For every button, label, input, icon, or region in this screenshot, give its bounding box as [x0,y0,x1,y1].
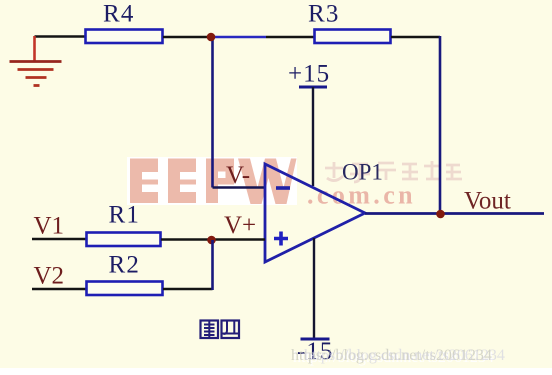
output wire [365,212,544,215]
svg-text:+15: +15 [288,61,330,88]
wire R1 to junction2 [161,238,208,241]
wire V2 to R2 [32,288,86,291]
svg-text:OP1: OP1 [342,160,383,185]
W [238,159,297,205]
svg-text:.com.cn: .com.cn [307,181,416,210]
svg-text:V2: V2 [34,263,65,290]
plus input symbol [274,232,288,246]
wire R2 to corner [163,288,213,291]
op-amp OP1 triangle [265,164,365,262]
minus input symbol [276,186,290,190]
watermark EEPW logo [127,157,297,205]
svg-text:V-: V- [226,162,250,189]
wire node A to R3 (blue segment) [212,36,266,39]
resistor R2 [87,282,163,296]
wire corner up to node B [211,240,214,290]
resistor R1 [87,233,161,247]
wire V- into op-amp [213,186,266,189]
node B junction dot (R1/R2/V+) [207,236,216,245]
wire junction down to V- [211,38,214,188]
wire +15 to op-amp V+ supply pin [312,87,314,186]
ground wire horizontal (black) [35,35,86,38]
wire right vertical down to output [439,36,442,214]
svg-text:R4: R4 [103,1,135,28]
svg-text:V+: V+ [224,212,256,239]
svg-text:V1: V1 [34,213,65,240]
power symbol -15 bar [301,338,330,341]
svg-text:Vout: Vout [464,188,511,215]
wire R4 to junction [163,36,208,39]
label figure four (first char) [201,321,219,339]
svg-text:https://blog.csdn.net/ts206123: https://blog.csdn.net/ts2061234 [304,347,505,364]
resistor R4 [86,30,163,44]
wire R3 to right corner [391,36,440,39]
power symbol +15 bar [299,86,327,89]
label figure four (second char) [222,321,240,339]
watermark csdn url [291,347,505,366]
ground symbol [10,62,62,86]
E [168,159,196,204]
node A junction dot (R4/R3/V-) [207,33,216,42]
watermark chinese characters [325,161,462,182]
E [130,159,158,204]
ground wire vertical (red) [33,36,36,61]
wire op-amp V- supply pin to -15 [313,238,315,339]
svg-text:R3: R3 [308,1,340,28]
wire to R3 (black segment) [266,36,314,39]
wire V1 to R1 [32,238,86,241]
resistor R3 [315,30,391,44]
svg-text:R1: R1 [109,202,141,229]
P [206,159,234,204]
wire junction2 to op-amp [215,238,265,241]
node Vout junction dot [436,210,445,219]
svg-text:R2: R2 [109,252,141,279]
